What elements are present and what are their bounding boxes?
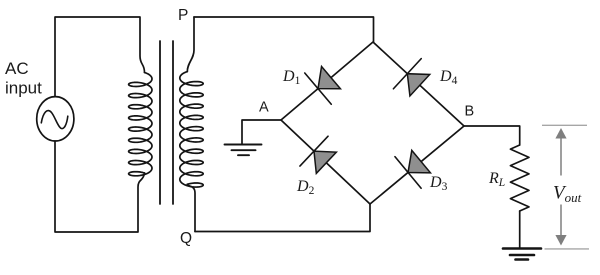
svg-text:P: P xyxy=(178,7,188,24)
svg-text:Q: Q xyxy=(180,230,192,247)
svg-text:AC: AC xyxy=(5,59,29,78)
svg-text:B: B xyxy=(465,104,475,120)
svg-text:A: A xyxy=(259,100,269,116)
svg-text:input: input xyxy=(5,79,42,98)
